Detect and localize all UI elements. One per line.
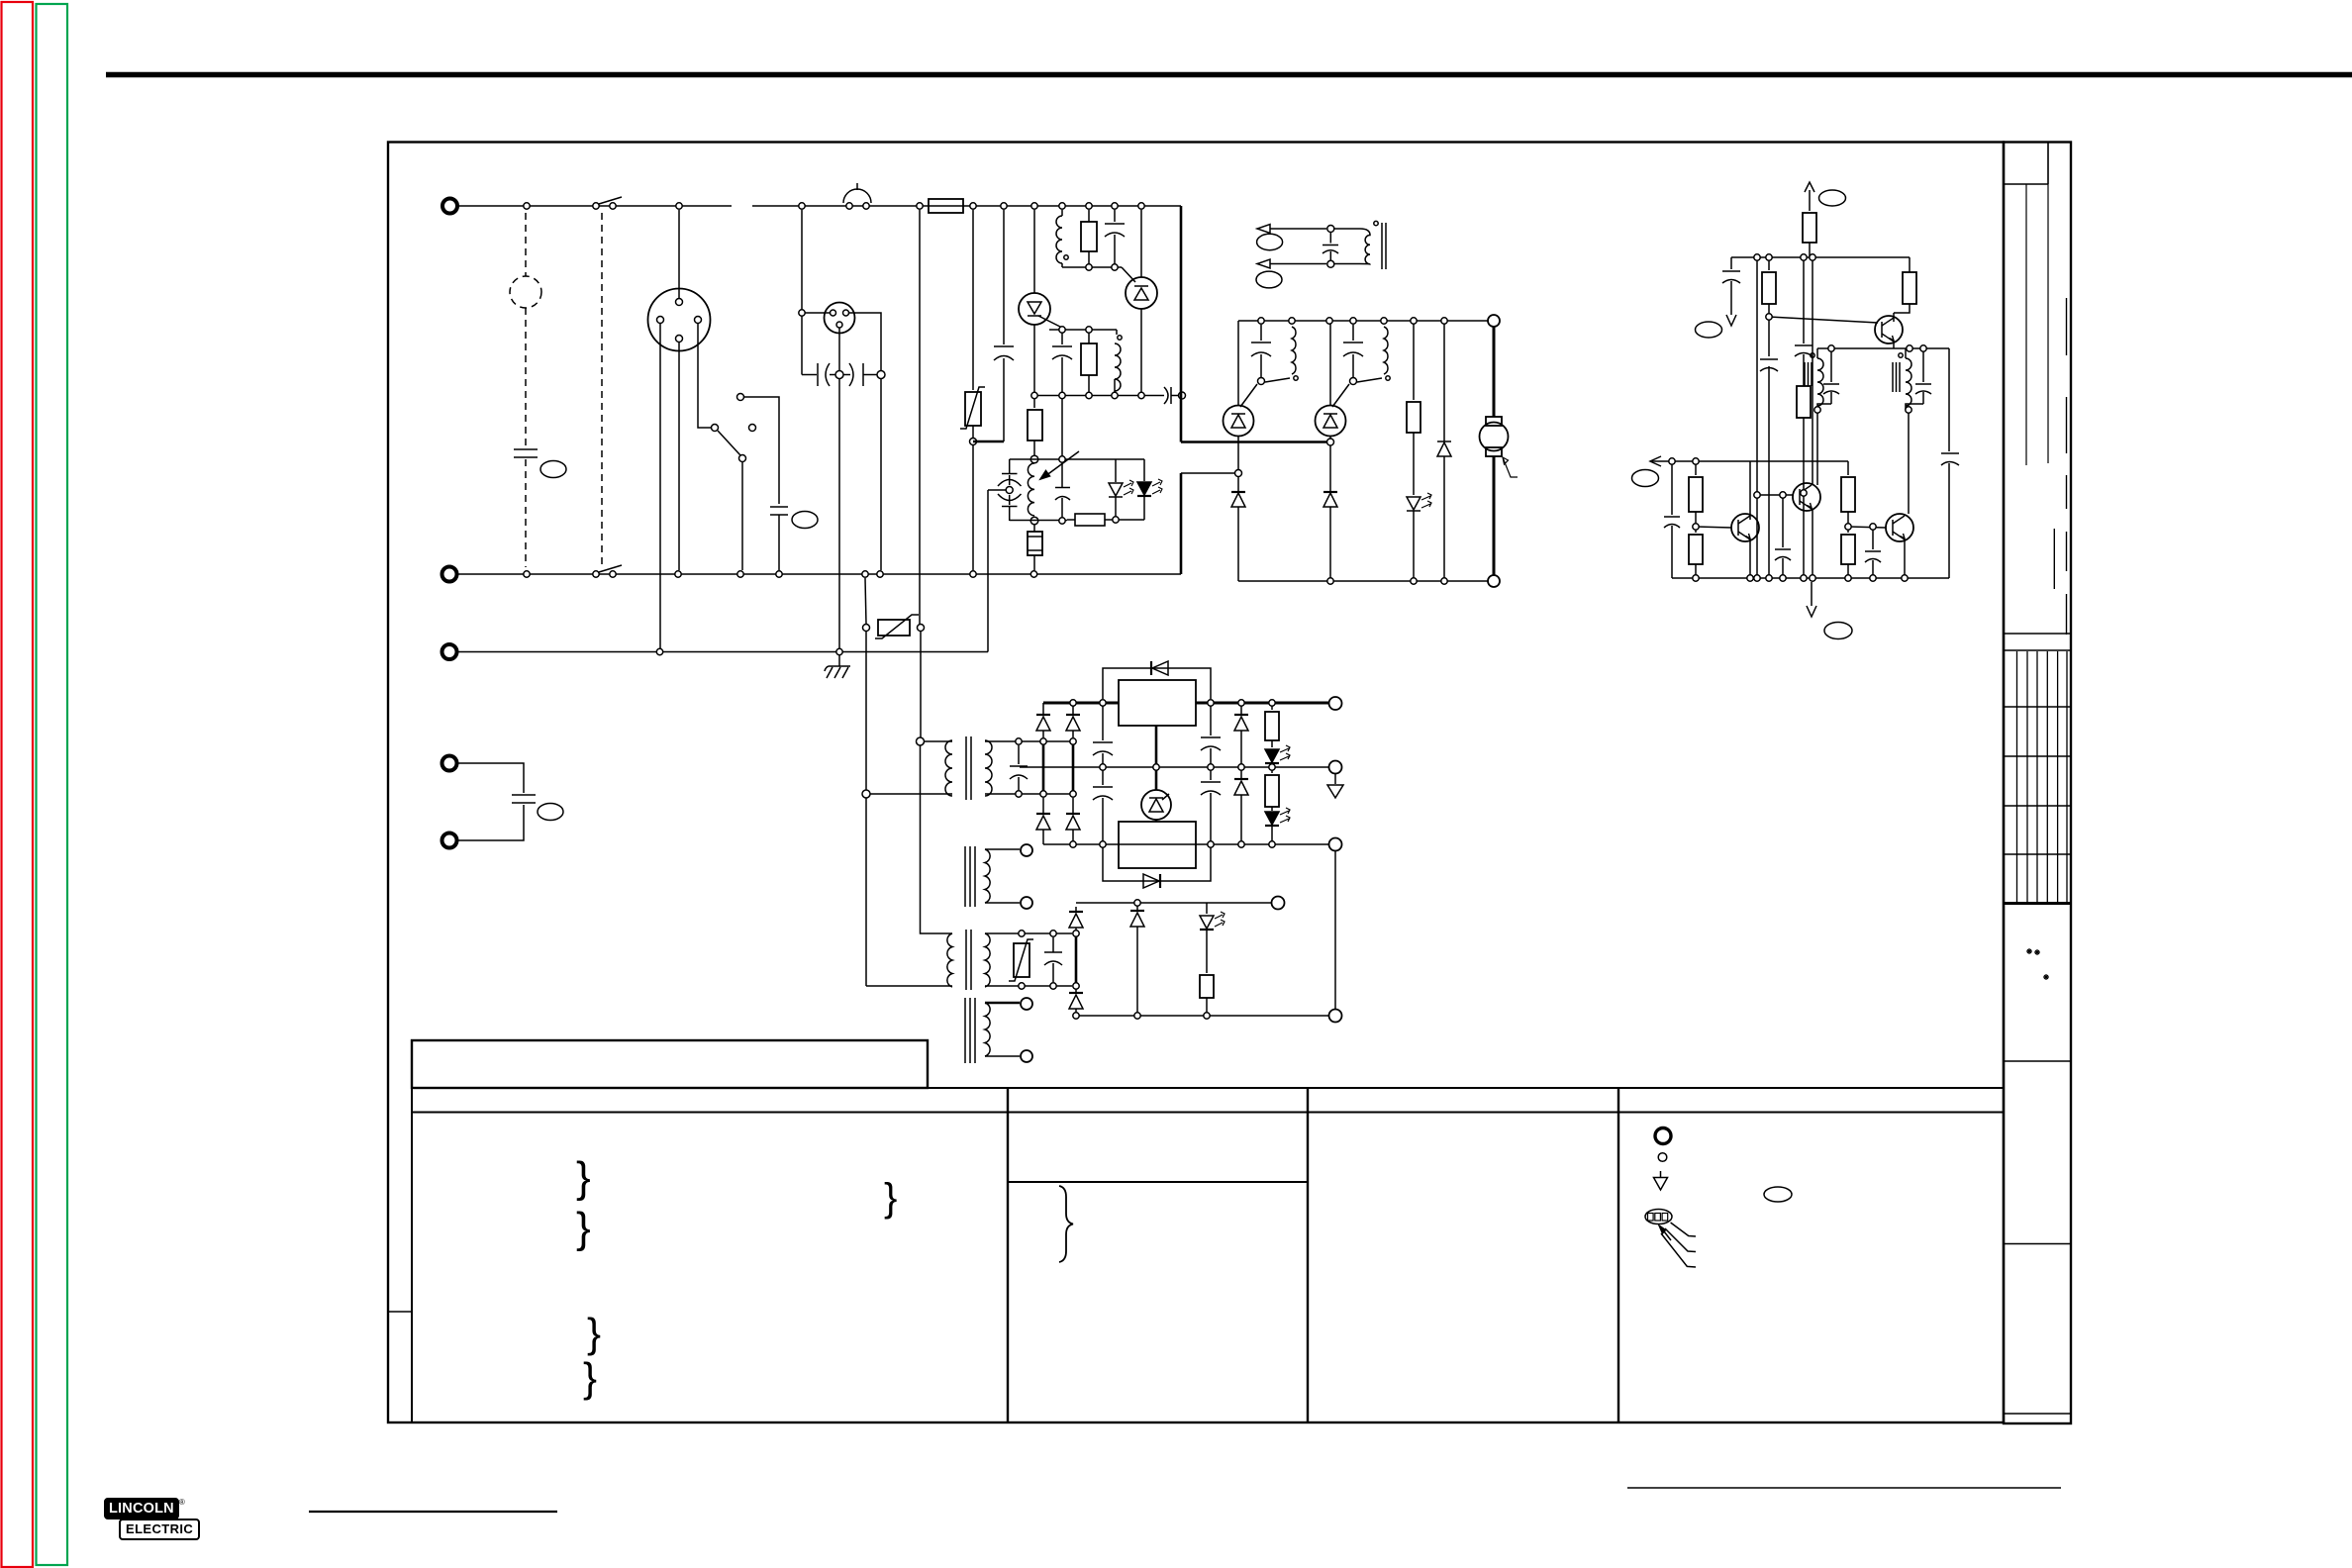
svg-text:}: } (884, 1176, 897, 1220)
svg-text:}: } (583, 1354, 597, 1401)
svg-text:}: } (576, 1204, 591, 1252)
svg-text:}: } (587, 1310, 601, 1356)
svg-text:}: } (576, 1153, 591, 1202)
